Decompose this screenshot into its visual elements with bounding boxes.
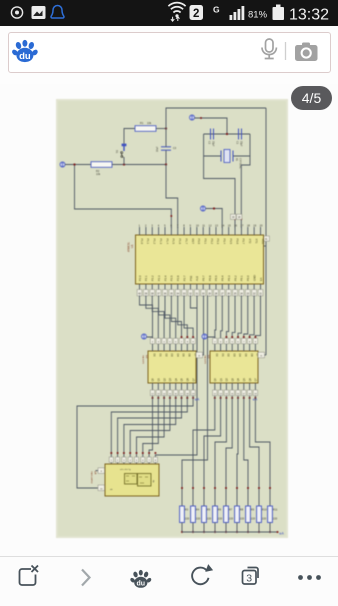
wire U1 P0.1 to U3 pin 2 [221,296,223,345]
wire U1 P0.3 to U3 pin 4 [232,296,235,345]
junction R7 bus [225,531,227,533]
junction above R11 [269,487,271,489]
svg-text:P2.7: P2.7 [182,275,186,281]
U3 bottom pin 15 [237,383,239,390]
svg-text:Q7: Q7 [192,378,195,382]
U1 bottom pin 35 [170,284,172,297]
U4 top pin 7 [147,457,151,462]
junctions over U3 pins [225,336,227,338]
U1 bottom pin 29 [209,284,211,297]
U1 top pin 4 [158,227,160,235]
resistor R2 horizontal [91,162,112,168]
U1 bottom pin 32 [189,284,191,297]
svg-text:P3.6: P3.6 [235,239,239,245]
svg-text:74LS373: 74LS373 [142,355,144,365]
wire R6 to bus [214,523,216,533]
svg-text:220: 220 [229,517,234,521]
U1 bottom pin 21 [260,284,262,297]
U3 bottom pin 17 [249,383,251,390]
capacitor C3 plates [161,146,171,148]
wire right side of crystal loop [249,134,251,156]
wire RST to U1 RST pin [166,165,178,229]
wire R8 to bus [236,523,238,533]
resistor R11 vertical [268,506,273,523]
svg-text:P1.5: P1.5 [172,239,176,245]
junction above R9 [247,487,249,489]
junction after P2 [200,117,202,119]
svg-text:RST: RST [191,239,195,245]
svg-text:2: 2 [193,8,199,20]
svg-text:a b c d e f g: a b c d e f g [120,469,130,471]
wire XTAL2 down to U1 [204,156,235,228]
svg-text:P3.7: P3.7 [242,239,246,245]
svg-text:Q2: Q2 [226,378,229,382]
junction above R10 [258,487,260,489]
U2 top pin 5 [175,344,177,351]
U2 top pin 6 [181,344,183,351]
svg-text:Q2: Q2 [163,378,166,382]
U1 top pin 17 [240,227,242,235]
svg-text:P0.0: P0.0 [246,275,250,281]
svg-text:P1.2: P1.2 [153,239,157,245]
wire R3 to bus [181,523,183,533]
wire U2 Q5 to display segment [124,398,176,464]
junction VCC wire [213,207,215,209]
U4 left pin upper [98,468,105,474]
U1 bottom pin 26 [228,284,230,297]
wire U3 Q3 to resistor [215,398,226,506]
U3 bottom pin 18 [254,383,256,390]
U4 top pin 5 [134,457,138,462]
wire U1 P0.2 to U3 pin 3 [226,296,228,345]
U3 top pin 8 [254,344,256,351]
junction above R4 [192,487,194,489]
U3 74LS373 body [210,351,258,383]
crystal X1 [204,150,250,163]
svg-text:AT89C51: AT89C51 [128,241,131,252]
U3 top pin 4 [231,344,233,351]
svg-text:P0.4: P0.4 [221,275,225,281]
U1 bottom pin 37 [158,284,160,297]
U3 top pin 2 [220,344,222,351]
svg-text:R8: R8 [240,508,244,512]
svg-text:P1.7: P1.7 [184,239,188,245]
U3 bottom pin 16 [243,383,245,390]
svg-text:P3.5: P3.5 [229,239,233,245]
svg-text:P1.4: P1.4 [165,239,169,245]
svg-text:P3.2: P3.2 [210,239,214,245]
svg-text:P0.5: P0.5 [214,275,218,281]
svg-text:Q6: Q6 [249,378,252,382]
wire U1 P0.0 to U3 pin 1 [215,296,216,345]
U1 top pin 15 [228,227,230,235]
svg-text:P2.6: P2.6 [176,275,180,281]
wire R7 to bus [225,523,227,533]
wire EA rail into U3 latch enable [265,354,267,356]
U2 bottom pin 14 [169,383,171,390]
wire data rail to resistor R3 [182,296,208,507]
U3 latch-enable pin box [258,352,265,358]
svg-text:P1.3: P1.3 [159,239,163,245]
wire U1 P0.6 to U3 pin 7 [250,296,255,345]
svg-text:P3.3: P3.3 [216,239,220,245]
digit graphic 1 [125,474,138,485]
U2 bottom pin 15 [175,383,177,390]
digit graphic 2 [138,474,152,487]
svg-text:3: 3 [246,573,252,585]
U1 bottom pin 33 [183,284,185,297]
wire U1 P2.1 to U2 pin 2 [146,296,158,345]
U3 bottom pin 14 [231,383,233,390]
junction above R6 [214,487,216,489]
wire U2 Q7 to display segment [111,398,187,464]
wire C3 top [165,129,167,147]
wire bus down between latches to display [155,296,197,465]
U2 bottom pin 12 [157,383,159,390]
svg-text:PSE: PSE [189,275,193,281]
svg-text:220: 220 [251,517,256,521]
wire U2 Q2 to display segment [143,398,159,464]
junction above R7 [225,487,227,489]
U1 top pin 2 [145,227,147,235]
svg-text:S1: S1 [115,150,119,154]
svg-text:Q1: Q1 [220,378,223,382]
U1 bottom pin 27 [221,284,223,297]
svg-text:U3: U3 [207,355,211,359]
U2 bottom pin 16 [181,383,183,390]
wire U3 Q6 to resistor [244,398,248,506]
svg-text:22pF: 22pF [212,141,215,147]
power flag P2 [189,115,194,120]
svg-text:P1.0: P1.0 [140,239,144,245]
wire U2 Q4 to display segment [130,398,170,464]
wire U1 P2.7 to U2 pin 8 [184,296,193,345]
resistor R3 vertical [180,506,185,523]
svg-text:XT2: XT2 [248,239,252,244]
U1 bottom pin 22 [253,284,255,297]
net flag bus end [276,531,278,533]
U1 bottom pin 34 [177,284,179,297]
U1 top pin 20 [260,227,262,235]
junction R5 bus [203,531,205,533]
svg-text:P2.0: P2.0 [138,275,142,281]
wire U1 P2.5 to U2 pin 6 [171,296,181,345]
junction button branch [123,163,125,165]
junction R4 bus [192,531,194,533]
U3 top pin 5 [237,344,239,351]
U1 bottom pin 28 [215,284,217,297]
svg-text:220: 220 [262,517,267,521]
resistor R10 vertical [257,506,262,523]
svg-text:G: G [213,5,220,15]
wire power P1 to R2 [65,164,91,166]
wire R10 to bus [258,523,260,533]
resistor R7 vertical [224,506,229,523]
U3 bottom pin 11 [214,383,216,390]
U1 bottom pin 40 [139,284,141,297]
svg-text:P2.1: P2.1 [144,275,148,281]
svg-text:ALE: ALE [195,276,199,281]
U1 bottom pin 30 [202,284,204,297]
U1 bottom pin 31 [196,284,198,297]
wire U1 P2.6 to U2 pin 7 [178,296,188,345]
U1 top pin 18 [247,227,249,235]
wire U1 P2.0 to U2 pin 1 [140,296,153,345]
svg-text:EA: EA [259,277,263,281]
svg-text:10k: 10k [147,121,152,125]
svg-text:P0.6: P0.6 [208,275,212,281]
U4 top pin 3 [122,457,126,462]
U2 bottom pin 11 [152,383,154,390]
junction R8 bus [236,531,238,533]
svg-text:7SEG-MPX2: 7SEG-MPX2 [90,471,92,484]
wire U3 Q5 to resistor [237,398,238,506]
U2 bottom pin 17 [186,383,188,390]
wire U2 Q8 to display segment [77,398,193,488]
U3 top pin 3 [225,344,227,351]
svg-text:Q7: Q7 [255,378,258,382]
svg-text:P0.1: P0.1 [240,275,244,281]
wire ALE to U2 latch enable [203,296,204,356]
U1 top pin 14 [221,227,223,235]
junction R10 bus [258,531,260,533]
U1 top pin 11 [202,227,204,235]
junction RST pin [170,215,172,217]
svg-text:VCC: VCC [261,239,265,245]
svg-text:R4: R4 [196,508,200,512]
U2 latch-enable pin box [196,352,203,358]
U2 output junction row [152,396,154,398]
svg-text:P3.4: P3.4 [223,239,227,245]
junction above R5 [203,487,205,489]
svg-text:220: 220 [273,517,278,521]
U3 top pin 1 [214,344,216,351]
U4 top pin 1 [109,457,113,462]
wire node up to EA rail [166,108,266,129]
svg-text:220: 220 [185,517,190,521]
U1 top pin 19 [253,227,255,235]
wire U1 P0.5 to U3 pin 6 [244,296,248,345]
U1 top pin 7 [177,227,179,235]
U1 top pin 10 [196,227,198,235]
U1 top pin 3 [151,227,153,235]
U3 bottom pin 12 [220,383,222,390]
junction C3-RST [165,163,167,165]
wire U1 pin 32 jog [190,296,197,309]
svg-text:10uF: 10uF [156,146,159,152]
svg-text:74LS373: 74LS373 [204,355,206,365]
U2 top pin 3 [163,344,165,351]
svg-text:P2.2: P2.2 [151,275,155,281]
U1 bottom pin 25 [234,284,236,297]
U4 top pin 8 [153,457,157,462]
pin 31 label box [263,236,270,241]
svg-text:R11: R11 [273,508,278,512]
U1 top pin 9 [189,227,191,235]
power flag P1 [60,162,65,167]
U3 output junction row [214,396,216,398]
svg-text:P3.0: P3.0 [197,239,201,245]
power flag P5 [202,334,207,339]
power flag P4 [141,334,146,339]
U4 top pin 4 [128,457,132,462]
wire left side of crystal loop [203,134,205,156]
wire U2 Q3 to display segment [137,398,165,464]
junction R3 bus [181,531,183,533]
wire EA rail down right side [265,108,267,355]
svg-text:R1: R1 [140,121,144,125]
U1 top pin 5 [164,227,166,235]
U1 AT89C51 body [136,235,264,284]
U1 bottom pin 23 [247,284,249,297]
power flag P3 [200,206,205,211]
wire U3 Q8 to resistor [255,398,270,506]
U1 bottom pin 36 [164,284,166,297]
crystal top rail [204,133,250,135]
wire U1 P0.7 to U3 pin 8 [255,296,260,345]
wire P5 to U3 pin 1 [207,337,215,344]
wire XTAL1 down to U1 [241,156,250,228]
digit segment marks [126,476,148,483]
U2 74LS373 body [148,351,196,383]
U2 top pin 1 [152,344,154,351]
junction row above display [110,452,112,454]
U2 top pin 7 [186,344,188,351]
svg-text:R3: R3 [185,508,189,512]
U1 top pin 1 [139,227,141,235]
svg-text:P0.2: P0.2 [233,275,237,281]
wire EA tap to U1 pin 31 [264,245,267,247]
svg-text:220: 220 [207,517,212,521]
U2 bottom pin 13 [163,383,165,390]
wire U3 Q2 to resistor [204,398,221,506]
wire power P2 to crystal top rail [195,118,228,134]
svg-text:GND: GND [252,275,256,281]
U1 top pin 16 [234,227,236,235]
svg-text:du: du [137,581,146,588]
resistor R5 vertical [202,506,207,523]
svg-text:U2: U2 [145,355,149,359]
wire U1 P0.4 to U3 pin 5 [238,296,241,345]
svg-text:U4: U4 [94,471,98,475]
svg-text:22pF: 22pF [240,141,243,147]
svg-text:P3.1: P3.1 [204,239,208,245]
ground bus under resistors [182,531,278,533]
U3 top pin 6 [243,344,245,351]
U4 top pin 6 [141,457,145,462]
U3 top pin 7 [249,344,251,351]
svg-text:P2.3: P2.3 [157,275,161,281]
svg-text:P2.5: P2.5 [170,275,174,281]
U2 top pin 8 [192,344,194,351]
wire RST node down-right to U1 pin [75,165,172,229]
wire R2 to C3 node [112,164,166,166]
capacitor C2 plates [210,129,212,140]
wire R11 to bus [269,523,271,533]
resistor R8 vertical [235,506,240,523]
junction above R8 [236,487,238,489]
U4 left pin lower [98,485,105,491]
wire VCC to U1 pin [206,209,223,229]
U1 top pin 12 [209,227,211,235]
svg-text:220: 220 [240,517,245,521]
junction at P1 branch [73,163,75,165]
svg-text:Q3: Q3 [169,378,172,382]
wire U3 Q4 to resistor [226,398,232,506]
svg-text:R5: R5 [207,508,211,512]
svg-text:P1.6: P1.6 [178,239,182,245]
schematic background [56,99,288,538]
U4 top pin 2 [116,457,120,462]
pin label boxes near XTAL pins [231,214,236,219]
svg-text:R9: R9 [251,508,255,512]
wire P4 to U2 pin 1 [147,337,153,344]
U2 top pin 2 [157,344,159,351]
wire U1 P2.4 to U2 pin 5 [165,296,176,345]
wire U3 Q1 to resistor [193,398,215,506]
U1 top pin 8 [183,227,185,235]
junction R9 bus [247,531,249,533]
wire R9 to bus [247,523,249,533]
push button S1 [121,144,127,165]
wire U2 Q1 to display segment [149,398,152,464]
wire R1 to node [156,128,166,130]
U1 top pin 13 [215,227,217,235]
wire U2 Q6 to display segment [118,398,182,464]
U4 7-segment display body [105,464,159,496]
wire U1 P2.3 to U2 pin 4 [159,296,170,345]
svg-text:U1: U1 [130,244,134,248]
svg-text:P1.1: P1.1 [146,239,150,245]
svg-text:P2.4: P2.4 [163,275,167,281]
wire R4 to bus [192,523,194,533]
junction R1-C3 [165,127,167,129]
U3 bottom pin 13 [225,383,227,390]
U1 top pin 6 [170,227,172,235]
U2 top pin 4 [169,344,171,351]
wire U3 Q7 to resistor [250,398,259,506]
svg-text:81%: 81% [248,10,268,21]
junction R6 bus [214,531,216,533]
U2 bottom pin 18 [192,383,194,390]
svg-text:du: du [19,51,31,62]
svg-text:P0.3: P0.3 [227,275,231,281]
junction R11 bus [269,531,271,533]
U1 bottom pin 24 [240,284,242,297]
svg-text:13:32: 13:32 [289,7,329,24]
svg-text:R10: R10 [262,508,267,512]
junction above R3 [181,487,183,489]
svg-text:10k: 10k [96,172,101,176]
svg-text:XT1: XT1 [254,239,258,244]
capacitor C1 plates [238,129,240,140]
svg-text:R7: R7 [229,508,233,512]
junction XTAL pins [234,218,236,220]
svg-text:220: 220 [196,517,201,521]
svg-text:220: 220 [218,517,223,521]
resistor R4 vertical [191,506,196,523]
junction top rail [226,133,228,135]
wire R5 to bus [203,523,205,533]
resistor R9 vertical [246,506,251,523]
U1 bottom pin 39 [145,284,147,297]
junctions over U2 pins [180,336,182,338]
U1 bottom pin 38 [151,284,153,297]
resistor R6 vertical [213,506,218,523]
wire C3 bottom to RST net [165,150,167,164]
svg-text:R6: R6 [218,508,222,512]
svg-text:P0.7: P0.7 [202,275,206,281]
